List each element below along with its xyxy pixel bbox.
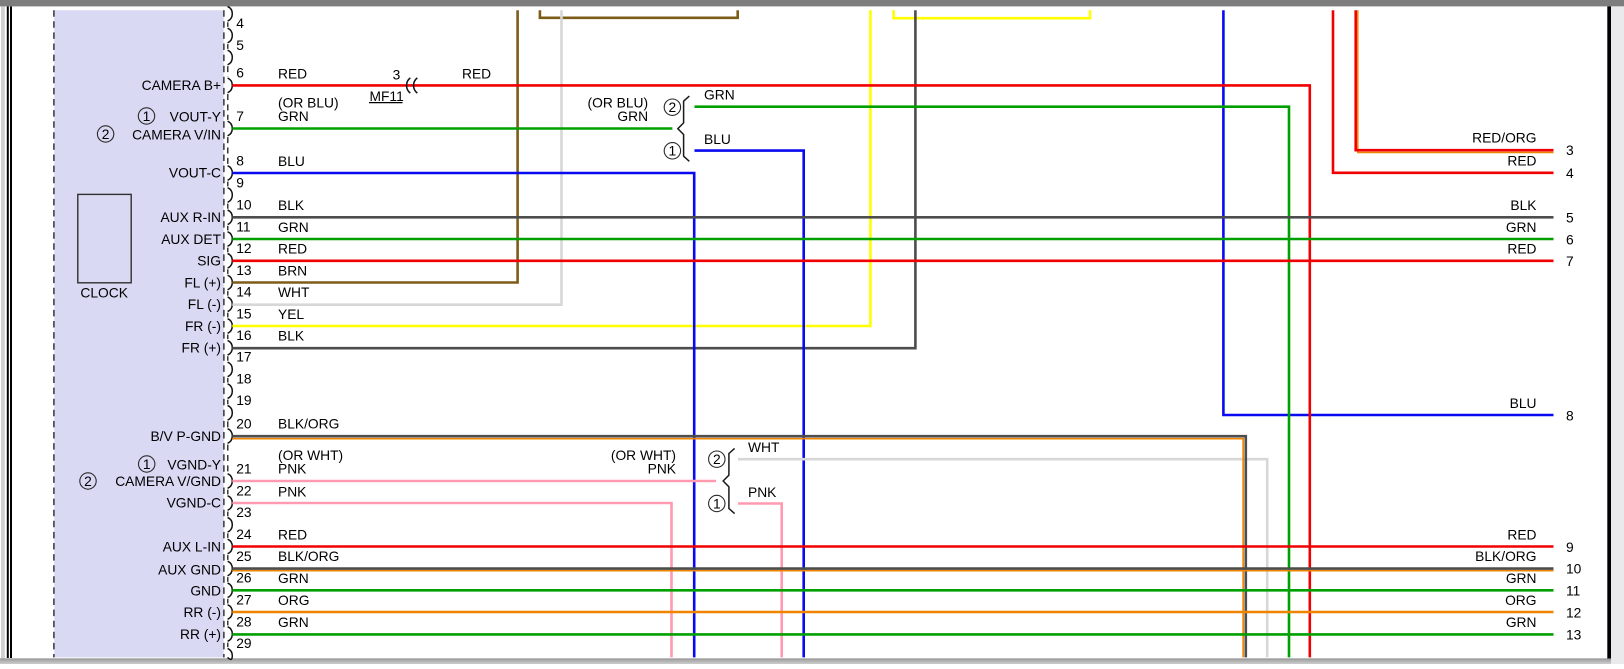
svg-text:13: 13 — [236, 263, 252, 278]
svg-text:20: 20 — [236, 416, 252, 431]
svg-text:VOUT-Y: VOUT-Y — [170, 109, 221, 124]
svg-text:RR (+): RR (+) — [180, 627, 221, 642]
svg-text:7: 7 — [236, 109, 244, 124]
svg-text:CLOCK: CLOCK — [80, 285, 128, 300]
svg-text:BLU: BLU — [704, 132, 731, 147]
svg-text:29: 29 — [236, 636, 252, 651]
svg-text:2: 2 — [102, 127, 110, 142]
svg-text:1: 1 — [713, 496, 721, 511]
svg-text:GRN: GRN — [1506, 615, 1537, 630]
svg-text:AUX L-IN: AUX L-IN — [163, 539, 221, 554]
svg-text:AUX R-IN: AUX R-IN — [160, 210, 221, 225]
svg-text:15: 15 — [236, 306, 252, 321]
svg-text:FR (-): FR (-) — [185, 319, 221, 334]
svg-text:2: 2 — [84, 474, 92, 489]
svg-text:1: 1 — [143, 109, 151, 124]
svg-text:GRN: GRN — [704, 88, 735, 103]
svg-text:FL (-): FL (-) — [188, 297, 221, 312]
svg-text:RR (-): RR (-) — [183, 605, 221, 620]
svg-text:GRN: GRN — [278, 220, 309, 235]
svg-text:BLK/ORG: BLK/ORG — [1475, 549, 1536, 564]
svg-text:8: 8 — [1566, 408, 1574, 423]
svg-text:GRN: GRN — [278, 571, 309, 586]
svg-text:WHT: WHT — [748, 440, 780, 455]
svg-text:6: 6 — [236, 66, 244, 81]
svg-text:GND: GND — [190, 583, 221, 598]
svg-text:GRN: GRN — [1506, 220, 1537, 235]
svg-text:RED/ORG: RED/ORG — [1472, 131, 1536, 146]
svg-text:BLK/ORG: BLK/ORG — [278, 549, 339, 564]
svg-text:9: 9 — [236, 175, 244, 190]
svg-text:19: 19 — [236, 393, 252, 408]
svg-text:10: 10 — [1566, 562, 1582, 577]
svg-text:B/V P-GND: B/V P-GND — [150, 429, 221, 444]
svg-text:PNK: PNK — [648, 461, 677, 476]
svg-text:9: 9 — [1566, 540, 1574, 555]
svg-text:1: 1 — [669, 144, 677, 159]
svg-text:24: 24 — [236, 527, 252, 542]
svg-text:5: 5 — [1566, 211, 1574, 226]
svg-text:4: 4 — [1566, 166, 1574, 181]
svg-text:RED: RED — [1507, 527, 1536, 542]
svg-text:7: 7 — [1566, 254, 1574, 269]
svg-text:RED: RED — [1507, 242, 1536, 257]
svg-text:WHT: WHT — [278, 285, 310, 300]
svg-text:GRN: GRN — [1506, 571, 1537, 586]
svg-text:1: 1 — [143, 457, 151, 472]
svg-text:BLK/ORG: BLK/ORG — [278, 416, 339, 431]
svg-text:6: 6 — [1566, 232, 1574, 247]
svg-text:BLK: BLK — [1510, 198, 1537, 213]
svg-text:PNK: PNK — [278, 461, 307, 476]
svg-text:VGND-C: VGND-C — [167, 496, 221, 511]
svg-text:FR (+): FR (+) — [182, 341, 221, 356]
svg-text:AUX DET: AUX DET — [161, 232, 221, 247]
svg-text:2: 2 — [669, 100, 677, 115]
svg-text:8: 8 — [236, 153, 244, 168]
svg-text:17: 17 — [236, 350, 251, 365]
svg-text:YEL: YEL — [278, 307, 304, 322]
svg-text:PNK: PNK — [278, 484, 307, 499]
svg-text:11: 11 — [1566, 584, 1580, 599]
svg-text:MF11: MF11 — [370, 89, 404, 104]
svg-text:VOUT-C: VOUT-C — [169, 166, 221, 181]
svg-text:28: 28 — [236, 614, 252, 629]
svg-text:BLU: BLU — [278, 154, 305, 169]
svg-text:12: 12 — [1566, 605, 1581, 620]
svg-text:SIG: SIG — [197, 254, 221, 269]
svg-text:RED: RED — [278, 242, 307, 257]
svg-text:5: 5 — [236, 38, 244, 53]
svg-text:22: 22 — [236, 483, 251, 498]
svg-text:3: 3 — [1566, 143, 1574, 158]
svg-text:27: 27 — [236, 592, 251, 607]
svg-text:GRN: GRN — [617, 109, 648, 124]
svg-text:ORG: ORG — [278, 593, 309, 608]
svg-text:18: 18 — [236, 371, 252, 386]
svg-text:GRN: GRN — [278, 109, 309, 124]
svg-text:4: 4 — [236, 16, 244, 31]
svg-text:AUX GND: AUX GND — [158, 562, 221, 577]
svg-text:11: 11 — [236, 219, 250, 234]
svg-text:BLK: BLK — [278, 198, 305, 213]
svg-text:2: 2 — [713, 452, 721, 467]
svg-text:FL (+): FL (+) — [184, 275, 221, 290]
svg-text:CAMERA B+: CAMERA B+ — [142, 78, 221, 93]
svg-text:ORG: ORG — [1505, 593, 1536, 608]
svg-text:3: 3 — [393, 67, 401, 82]
svg-text:BLK: BLK — [278, 329, 305, 344]
svg-text:RED: RED — [462, 66, 491, 81]
svg-text:BRN: BRN — [278, 263, 307, 278]
svg-text:21: 21 — [236, 461, 251, 476]
svg-text:25: 25 — [236, 549, 252, 564]
svg-text:16: 16 — [236, 328, 252, 343]
svg-text:CAMERA V/IN: CAMERA V/IN — [132, 128, 221, 143]
svg-text:RED: RED — [278, 66, 307, 81]
svg-text:10: 10 — [236, 198, 252, 213]
svg-text:RED: RED — [278, 527, 307, 542]
svg-text:13: 13 — [1566, 627, 1582, 642]
svg-text:RED: RED — [1507, 154, 1536, 169]
svg-text:CAMERA V/GND: CAMERA V/GND — [115, 474, 221, 489]
svg-text:BLU: BLU — [1510, 396, 1537, 411]
svg-text:PNK: PNK — [748, 485, 777, 500]
svg-text:23: 23 — [236, 505, 252, 520]
svg-text:12: 12 — [236, 241, 251, 256]
svg-text:GRN: GRN — [278, 615, 309, 630]
svg-text:14: 14 — [236, 285, 252, 300]
svg-text:VGND-Y: VGND-Y — [167, 457, 221, 472]
svg-text:26: 26 — [236, 571, 252, 586]
